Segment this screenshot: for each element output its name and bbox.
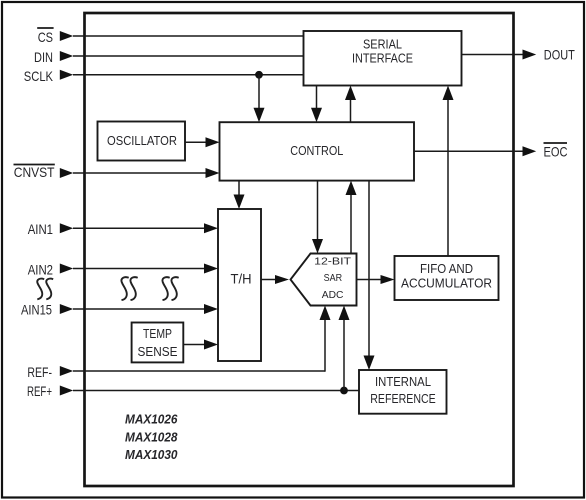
wire CONTROL up to SERIAL INTERFACE with arrow xyxy=(345,86,356,123)
box U8 INTERNAL REFERENCE xyxy=(359,370,447,414)
break squiggle on wire gap left xyxy=(121,277,137,300)
pin SCLK input xyxy=(24,68,304,84)
svg-text:CNVST: CNVST xyxy=(14,164,55,180)
wire CONTROL down to T/H with arrow xyxy=(234,181,245,209)
box U2 CONTROL xyxy=(220,122,415,180)
wire SERIAL INTERFACE down to CONTROL with arrow xyxy=(311,86,322,123)
main device box MAX1026/MAX1028/MAX1030 xyxy=(85,13,514,486)
box U1 SERIAL INTERFACE xyxy=(304,31,462,86)
wire REF+ junction up into SAR ADC with arrow xyxy=(339,306,350,391)
svg-text:INTERNAL: INTERNAL xyxy=(375,375,431,389)
break squiggle under AIN2 label xyxy=(37,279,53,300)
wire SCLK junction to CONTROL with arrow xyxy=(254,75,265,122)
svg-text:SAR: SAR xyxy=(324,272,343,284)
svg-text:AIN15: AIN15 xyxy=(21,302,52,318)
svg-text:T/H: T/H xyxy=(231,272,252,287)
svg-text:ACCUMULATOR: ACCUMULATOR xyxy=(401,277,492,291)
svg-text:12-BIT: 12-BIT xyxy=(314,255,352,267)
wire OSCILLATOR to CONTROL with arrow xyxy=(185,137,220,147)
pin AIN1 input xyxy=(28,221,218,237)
svg-text:TEMP: TEMP xyxy=(143,326,172,341)
svg-text:DIN: DIN xyxy=(34,49,53,65)
box U3 OSCILLATOR xyxy=(98,122,186,161)
pin AIN15 input xyxy=(21,302,218,318)
svg-text:SERIAL: SERIAL xyxy=(363,38,402,52)
wire TEMP SENSE to T/H with arrow xyxy=(184,340,218,350)
svg-text:SCLK: SCLK xyxy=(24,68,54,84)
svg-text:CS: CS xyxy=(38,29,53,45)
svg-text:AIN2: AIN2 xyxy=(28,262,53,278)
wire FIFO up to SERIAL INTERFACE with arrow xyxy=(443,86,454,257)
pin REF- input xyxy=(27,364,325,380)
break squiggle on wire gap right xyxy=(162,277,178,300)
pin DIN input xyxy=(34,49,304,65)
pin DOUT output xyxy=(462,47,576,63)
svg-text:AIN1: AIN1 xyxy=(28,221,53,237)
pin AIN2 input xyxy=(28,262,218,278)
svg-text:INTERFACE: INTERFACE xyxy=(352,52,413,66)
box U7 FIFO AND ACCUMULATOR xyxy=(395,256,499,300)
svg-text:MAX1028: MAX1028 xyxy=(125,430,178,445)
wire SAR ADC to FIFO with arrow xyxy=(357,275,395,284)
svg-text:REF-: REF- xyxy=(27,364,52,380)
svg-text:ADC: ADC xyxy=(322,289,344,301)
wire T/H to SAR ADC with arrow xyxy=(262,275,290,284)
pin EOC output xyxy=(414,143,568,160)
svg-text:REF+: REF+ xyxy=(27,383,52,399)
wire CONTROL down to SAR ADC with arrow xyxy=(312,181,323,254)
svg-text:DOUT: DOUT xyxy=(544,47,575,63)
wire REF- up into SAR ADC with arrow xyxy=(320,306,331,372)
pin CNVST input xyxy=(14,164,220,180)
wire CONTROL down to INTERNAL REFERENCE with arrow xyxy=(364,181,375,370)
svg-text:FIFO AND: FIFO AND xyxy=(420,262,473,276)
svg-text:REFERENCE: REFERENCE xyxy=(370,392,436,406)
svg-text:EOC: EOC xyxy=(544,144,568,160)
svg-text:MAX1030: MAX1030 xyxy=(125,447,178,462)
junction dot on SCLK net xyxy=(255,71,263,79)
svg-text:SENSE: SENSE xyxy=(138,344,178,359)
svg-text:CONTROL: CONTROL xyxy=(290,144,343,158)
ADC U6 12-BIT SAR ADC pentagon xyxy=(291,254,357,306)
pin CS input xyxy=(37,28,303,45)
junction dot on REF+ net xyxy=(340,387,348,395)
svg-text:OSCILLATOR: OSCILLATOR xyxy=(107,134,177,148)
box U5 TEMP SENSE xyxy=(132,323,184,363)
pin REF+ input xyxy=(27,383,359,399)
wire SAR ADC up to CONTROL with arrow xyxy=(346,181,357,254)
svg-text:MAX1026: MAX1026 xyxy=(125,412,178,427)
box U4 T/H track-and-hold xyxy=(218,209,261,361)
